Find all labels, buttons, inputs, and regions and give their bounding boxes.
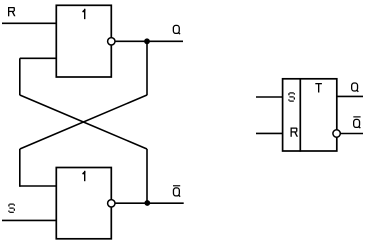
pin label R of flip-flop bbox=[291, 128, 298, 137]
wire: top gate output to Q bbox=[115, 40, 183, 42]
wire: R input to top gate bbox=[2, 22, 56, 24]
overbar of flip-flop Q-bar label bbox=[353, 116, 360, 117]
flip-flop symbol (RS trigger box) bbox=[283, 79, 337, 151]
wire: S input to bottom gate bbox=[2, 219, 56, 221]
inversion bubble of top gate output bbox=[108, 38, 115, 45]
node Q (junction dot) bbox=[144, 38, 150, 44]
wire: Q output of flip-flop bbox=[337, 95, 363, 97]
wire: bottom gate output to Q-bar bbox=[115, 202, 184, 204]
node Q-bar (junction dot) bbox=[144, 200, 150, 206]
inversion bubble of flip-flop Q-bar output bbox=[333, 130, 340, 137]
label "1" of bottom gate bbox=[82, 171, 85, 181]
inversion bubble of bottom gate output bbox=[108, 200, 115, 207]
overbar of Q-bar label bbox=[173, 185, 180, 186]
label T (trigger) bbox=[315, 83, 322, 93]
wire: vertical left down to bottom gate input bbox=[19, 149, 21, 187]
label Q-bar output bbox=[173, 188, 180, 197]
wire: vertical right down to Q-bar junction bbox=[146, 149, 148, 203]
wire: cross-coupling diagonal from Q-bar junction to top gate input bbox=[20, 95, 147, 149]
wire: R input of flip-flop bbox=[256, 132, 283, 134]
wire: Q-bar output of flip-flop bbox=[340, 133, 363, 135]
wire: cross-coupling diagonal from Q junction to bottom gate input bbox=[20, 95, 147, 149]
wire: vertical drop from Q junction bbox=[146, 41, 148, 95]
NOR gate DD2 (bottom, IEC "1" box) bbox=[56, 168, 111, 239]
wire: top gate second input (feedback from Q-bar) bbox=[20, 57, 57, 59]
label S (set input) bbox=[8, 204, 15, 213]
pin label S of flip-flop bbox=[288, 92, 295, 101]
wire: bottom gate first input (feedback from Q) bbox=[20, 185, 57, 187]
label Q output bbox=[173, 25, 180, 34]
label Q output of flip-flop bbox=[352, 83, 359, 92]
label Q-bar output of flip-flop bbox=[354, 119, 361, 128]
label R (reset input) bbox=[8, 7, 15, 16]
NOR gate DD1 (top, IEC "1" box) bbox=[56, 5, 111, 77]
wire: S input of flip-flop bbox=[256, 96, 283, 98]
divider line of flip-flop symbol bbox=[299, 79, 301, 152]
label "1" of top gate bbox=[82, 9, 85, 19]
wire: vertical up to top gate second input bbox=[19, 58, 21, 95]
